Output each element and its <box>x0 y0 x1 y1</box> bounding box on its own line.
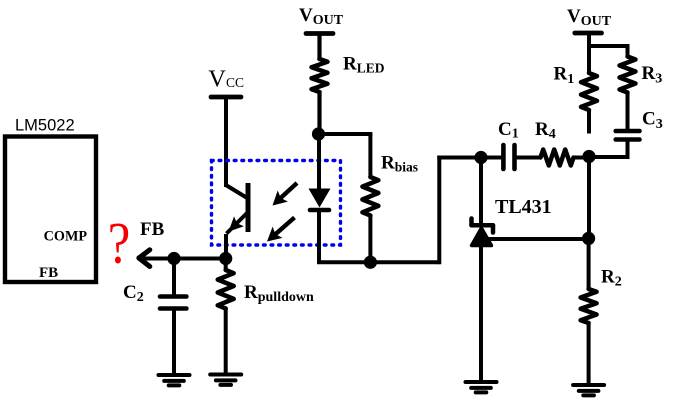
svg-text:R2: R2 <box>601 267 622 290</box>
svg-text:VOUT: VOUT <box>299 5 344 28</box>
svg-text:RLED: RLED <box>343 54 385 76</box>
svg-text:C3: C3 <box>642 109 663 132</box>
svg-text:R3: R3 <box>642 63 663 87</box>
svg-text:FB: FB <box>140 219 165 240</box>
svg-text:FB: FB <box>39 265 58 281</box>
svg-text:VOUT: VOUT <box>567 6 612 29</box>
svg-text:TL431: TL431 <box>495 196 552 218</box>
svg-text:LM5022: LM5022 <box>15 117 75 135</box>
svg-text:COMP: COMP <box>44 229 88 245</box>
svg-text:Rpulldown: Rpulldown <box>244 282 314 305</box>
svg-text:?: ? <box>108 210 131 275</box>
svg-text:C2: C2 <box>123 282 144 305</box>
svg-text:Rbias: Rbias <box>381 153 418 175</box>
svg-text:VCC: VCC <box>208 66 244 93</box>
svg-text:R4: R4 <box>535 119 556 142</box>
svg-text:R1: R1 <box>554 64 575 87</box>
svg-text:C1: C1 <box>498 119 519 142</box>
